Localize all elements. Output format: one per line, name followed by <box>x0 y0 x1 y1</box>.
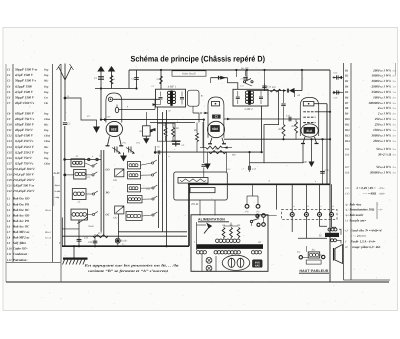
svg-text:·· ·· · 2×•×••·: ·· ·· · 2×•×••· <box>351 234 367 238</box>
svg-text:1000 ω 1 W½: 1000 ω 1 W½ <box>373 95 391 99</box>
resistor R11 <box>295 122 298 133</box>
svg-text:L5: L5 <box>6 220 11 223</box>
wire V2 plate right <box>224 118 300 120</box>
svg-text:Bob MF1 ac: Bob MF1 ac <box>12 230 30 234</box>
tube V3 legs <box>303 137 305 143</box>
svg-text:Chim: Chim <box>44 140 50 143</box>
svg-text:Chim: Chim <box>44 118 50 121</box>
switch contacts left bank <box>92 165 94 167</box>
svg-text:Sou ple ant •: Sou ple ant • <box>350 219 368 223</box>
jacks PU <box>245 204 249 208</box>
capacitor 2x <box>245 70 247 76</box>
band bus pair <box>100 150 102 232</box>
capacitor C30 on bus <box>94 238 96 246</box>
jack exc right <box>322 255 325 258</box>
svg-text:R11: R11 <box>345 124 350 127</box>
svg-text:LP: LP <box>344 246 348 249</box>
svg-text:HAUT·PARLEUR: HAUT·PARLEUR <box>299 269 328 273</box>
svg-text:c: c <box>243 167 244 170</box>
bold feed arrow <box>218 76 220 80</box>
svg-text:R13: R13 <box>345 134 350 137</box>
wire IF1 top feed <box>160 70 162 89</box>
svg-text:Blin d: Blin d <box>45 231 52 234</box>
svg-text:L7: L7 <box>6 231 11 234</box>
svg-text:R14: R14 <box>345 140 350 143</box>
wire IF2 top <box>235 70 237 77</box>
osc trimmer CA1 <box>115 169 124 177</box>
svg-text:L6: L6 <box>6 225 11 228</box>
svg-text:CF: CF <box>345 229 349 232</box>
svg-text:L1: L1 <box>75 155 79 158</box>
tube V3 envelope <box>300 97 318 136</box>
svg-text:4,5µµF 1500: 4,5µµF 1500 <box>14 84 32 88</box>
svg-text:Ajust: Ajust <box>54 184 60 187</box>
volets oscill label box <box>172 71 206 76</box>
mains arrow <box>206 223 212 229</box>
wire V3 screen <box>316 111 331 113</box>
svg-text:650µF 1500 V: 650µF 1500 V <box>15 111 35 115</box>
wire h 228.9 <box>62 228 79 230</box>
cathode network box <box>174 172 228 200</box>
svg-text:30000 ω 1 W½: 30000 ω 1 W½ <box>371 133 392 137</box>
svg-text:3 w: 3 w <box>393 113 397 116</box>
wire C26 branch <box>78 220 80 247</box>
left table column rule 1 <box>12 64 14 262</box>
svg-text:50µµF 1500 V·ss: 50µµF 1500 V·ss <box>15 68 38 72</box>
svg-text:45µµF 750 V·: 45µµF 750 V· <box>14 128 33 132</box>
svg-text:6L6: 6L6 <box>307 129 313 133</box>
secondary coil right <box>252 251 255 254</box>
svg-text:Mic: Mic <box>43 80 49 83</box>
node PU junction <box>63 174 66 177</box>
heavy bus horizontal right <box>189 183 330 185</box>
svg-text:Bob MF2 ac: Bob MF2 ac <box>12 236 30 240</box>
tube V2 base ellipse <box>207 121 224 137</box>
osc trimmer CA2 <box>115 206 124 214</box>
tube V1 type label <box>110 126 118 132</box>
svg-text:2×0,45µF 250 V: 2×0,45µF 250 V <box>12 189 35 193</box>
svg-text:CV1: CV1 <box>122 142 126 145</box>
svg-text:Aj2: Aj2 <box>344 209 349 212</box>
resistor R4 <box>164 128 167 137</box>
capacitor into box <box>202 164 207 166</box>
secondary coil middle <box>214 251 217 254</box>
svg-text:450µF 750 V·s: 450µF 750 V·s <box>14 117 35 121</box>
svg-text:4A5: 4A5 <box>255 265 260 268</box>
svg-text:Fusib·: Fusib· <box>120 240 128 243</box>
trimmer cap margin 1 <box>333 77 344 79</box>
svg-text:C15: C15 <box>7 151 12 154</box>
heater pin 3 <box>318 213 322 217</box>
svg-text:Bob Osc OC: Bob Osc OC <box>12 208 30 212</box>
svg-text:CAV: CAV <box>106 116 111 119</box>
osc coil row 2 <box>128 172 141 179</box>
tube V1 legs <box>108 136 110 145</box>
wire under V3 <box>264 144 303 163</box>
svg-text:R10: R10 <box>278 128 284 131</box>
svg-text:L8: L8 <box>6 237 11 240</box>
wires into box <box>203 120 205 163</box>
tube V2 legs <box>210 138 212 144</box>
jack exc left <box>299 256 302 259</box>
svg-text:2×0,4 µF 500 V: 2×0,4 µF 500 V <box>12 173 34 177</box>
svg-text:Bob Osc PO: Bob Osc PO <box>12 202 30 206</box>
right table column rule 2 <box>350 63 352 280</box>
svg-text:R12: R12 <box>271 86 277 89</box>
schematic top border <box>129 69 330 71</box>
svg-text:3 w: 3 w <box>393 124 397 127</box>
variable capacitor double arrow <box>283 89 287 92</box>
svg-text:L10: L10 <box>6 248 12 251</box>
junction dots misc <box>160 69 162 71</box>
tube V2 label box <box>211 125 220 131</box>
tube V2 middle element <box>212 115 220 119</box>
svg-text:· rouge· pilote 6,3·· 4Ω·: · rouge· pilote 6,3·· 4Ω· <box>351 245 381 249</box>
coupling capacitor C13 <box>288 117 290 122</box>
svg-text:30000 ω 1 W¼: 30000 ω 1 W¼ <box>371 79 392 83</box>
padder trimmer top 2 <box>126 148 134 153</box>
arrow left AVC <box>150 128 155 131</box>
svg-text:2 MF 2: 2 MF 2 <box>244 108 253 111</box>
transformer core bar <box>197 244 264 249</box>
svg-text:CV1: CV1 <box>345 187 349 190</box>
right table top tick <box>395 63 397 75</box>
wire osc h-line <box>155 151 261 153</box>
jack pair lower <box>262 214 266 218</box>
cathode resistor R7 <box>206 146 222 149</box>
wire border drop <box>128 70 130 89</box>
svg-text:variante “B” se ferment et “A”: variante “B” se ferment et “A” s’ouvrent <box>88 269 169 273</box>
earth hatched bar <box>63 258 88 260</box>
IF transformer MF1 box <box>156 89 186 107</box>
heater pin 2 <box>304 213 308 217</box>
svg-text:3 w: 3 w <box>393 102 397 105</box>
svg-text:1 w: 1 w <box>393 86 397 89</box>
svg-text:C20: C20 <box>7 179 12 182</box>
svg-text:En appuyant sur les poussoirs: En appuyant sur les poussoirs on lit… /l… <box>83 263 179 267</box>
IF transformer MF2 box <box>233 89 268 106</box>
svg-text:Mic: Mic <box>43 124 49 127</box>
resistor R12 <box>270 89 281 92</box>
svg-text:Chim: Chim <box>44 162 50 165</box>
wire step left chain <box>250 91 279 163</box>
resistor bar 1 <box>178 178 208 184</box>
svg-text:1000000 ω 1 W½: 1000000 ω 1 W½ <box>368 101 391 105</box>
svg-text:Pap: Pap <box>44 129 49 132</box>
osc wires to switches <box>141 163 152 165</box>
wires coils to switches <box>85 163 92 166</box>
svg-text:s·tûp: s·tûp <box>54 196 60 199</box>
IF2 capacitor left <box>236 96 240 98</box>
wire V1 left stem <box>100 89 102 120</box>
svg-text:Pap: Pap <box>44 69 49 72</box>
wires field coil <box>303 256 309 258</box>
mains terminals <box>256 214 259 217</box>
wire drop 4 <box>319 184 321 212</box>
svg-text:Potentiomètre 50Ω: Potentiomètre 50Ω <box>350 208 375 212</box>
svg-text:3 w: 3 w <box>393 75 397 78</box>
wire V2 grid dashes <box>200 112 208 114</box>
svg-text:2 ω 1 W½: 2 ω 1 W½ <box>377 112 392 116</box>
svg-text:R17: R17 <box>97 232 103 235</box>
wire PU to coils <box>65 174 74 176</box>
svg-text:Aj3: Aj3 <box>344 214 349 217</box>
svg-text:300000 ω 1 W½: 300000 ω 1 W½ <box>369 171 392 175</box>
svg-text:4 ω 1 W½: 4 ω 1 W½ <box>377 106 392 110</box>
antenna coil L1 box <box>71 159 85 167</box>
resistor R5 <box>172 128 175 137</box>
svg-text:0,45µF 500 V·ss: 0,45µF 500 V·ss <box>13 184 35 188</box>
svg-text:Bob Acc PO: Bob Acc PO <box>12 219 30 223</box>
svg-text:Chim: Chim <box>44 135 50 138</box>
svg-text:0,2µF 750 V·: 0,2µF 750 V· <box>15 156 32 160</box>
svg-text:3 w: 3 w <box>393 148 397 151</box>
svg-text:C11: C11 <box>240 85 244 88</box>
schematic right border <box>329 70 331 282</box>
ground arrow input <box>93 127 100 134</box>
svg-text:C17: C17 <box>7 162 12 165</box>
svg-text:3 w: 3 w <box>393 118 397 121</box>
svg-text:3 w: 3 w <box>393 69 397 72</box>
svg-text:50 ω 4 W½: 50 ω 4 W½ <box>376 165 391 169</box>
resistor R17 h <box>93 235 108 238</box>
svg-text:R18: R18 <box>344 172 350 175</box>
wire transformer right <box>339 229 341 235</box>
svg-text:1500 ω 1 W½: 1500 ω 1 W½ <box>373 128 391 132</box>
svg-text:C11: C11 <box>7 129 12 132</box>
frame bottom border <box>6 281 389 283</box>
svg-text:4,5µF 1500 V: 4,5µF 1500 V <box>14 73 34 77</box>
svg-text:3 w: 3 w <box>393 166 397 169</box>
svg-text:Volets Oscill·: Volets Oscill· <box>182 73 197 76</box>
dashed lamp box <box>282 210 338 220</box>
wire box right <box>226 152 228 172</box>
svg-text:0,2µF 250 V·s: 0,2µF 250 V·s <box>15 139 34 143</box>
osc coil row 5 <box>126 212 142 221</box>
node osc feed <box>154 151 157 154</box>
svg-text:2×0,45µF 500 V·: 2×0,45µF 500 V· <box>12 167 35 171</box>
capacitor cross to ground <box>172 140 181 142</box>
capacitor C4 <box>136 70 138 89</box>
svg-text:R16: R16 <box>344 154 350 157</box>
svg-text:C22: C22 <box>7 190 12 193</box>
resistor R3 box <box>143 126 151 136</box>
osc coil row 3 <box>128 185 141 192</box>
wire top h-line <box>95 88 137 90</box>
svg-text:1 w: 1 w <box>393 129 397 132</box>
earth connection <box>73 246 75 257</box>
svg-text:1 w: 1 w <box>393 91 397 94</box>
paper speckle noise <box>254 36 257 39</box>
left table bottom border <box>6 262 61 264</box>
svg-text:30×2 ½ Ω: 30×2 ½ Ω <box>377 153 392 157</box>
svg-text:2×: 2× <box>241 78 244 81</box>
svg-text:L9: L9 <box>6 242 11 245</box>
svg-text:R17: R17 <box>344 166 350 169</box>
svg-text:CV2: CV2 <box>345 193 350 196</box>
svg-text:L2: L2 <box>6 203 11 206</box>
wire step to IF2 <box>228 78 238 90</box>
IF1 capacitor right <box>180 96 184 98</box>
svg-text:6E8: 6E8 <box>111 127 117 131</box>
antenna coil L3 box <box>72 189 86 200</box>
svg-text:C14: C14 <box>7 146 12 149</box>
svg-text:Bob •écu: Bob •écu <box>349 202 362 206</box>
svg-text:C16: C16 <box>7 157 12 160</box>
rectifier tube <box>222 255 250 270</box>
wire antenna down <box>64 98 66 121</box>
antenna <box>64 80 66 98</box>
svg-text:Schéma de principe (Châssis re: Schéma de principe (Châssis repéré D) <box>131 54 266 63</box>
tube V3 base ellipse <box>301 124 318 137</box>
IF2 coils <box>245 91 248 94</box>
wire top right h <box>247 90 283 92</box>
svg-text:Fusib· 1,5 A · 6×4•·: Fusib· 1,5 A · 6×4•· <box>351 240 376 244</box>
svg-text:C10: C10 <box>7 124 12 127</box>
svg-text:· 474••: · 474•• <box>378 187 385 190</box>
svg-text:3 w: 3 w <box>393 96 397 99</box>
wire left coil down <box>61 217 63 246</box>
svg-text:L12: L12 <box>6 259 12 262</box>
svg-text:écr an: écr an <box>45 237 52 240</box>
svg-text:Pap: Pap <box>44 151 49 154</box>
svg-text:6D6: 6D6 <box>212 127 218 131</box>
antenna coil L2 box <box>74 169 86 179</box>
svg-text:Mic: Mic <box>43 146 49 149</box>
svg-text:Re: Re <box>200 95 203 98</box>
tube V3 top box <box>303 102 314 106</box>
ground arrow R3 <box>143 138 149 144</box>
svg-text:2×0,45µF 250 V: 2×0,45µF 250 V <box>12 178 35 182</box>
padder trimmer top 1 <box>112 148 120 153</box>
svg-text:Padd: Padd <box>88 225 95 228</box>
supply arrow 2 <box>108 66 116 72</box>
trimmer cap margin 2 <box>333 92 344 94</box>
resistor bar 2 <box>190 188 215 193</box>
svg-text:S1: S1 <box>157 78 159 81</box>
svg-text:Bob Osc GO: Bob Osc GO <box>12 197 30 201</box>
rejector box <box>188 90 200 106</box>
svg-text:Self ·filtre: Self ·filtre <box>13 241 27 245</box>
svg-text:Condensat ·: Condensat · <box>13 252 29 256</box>
svg-text:50µµF 1500 V·s: 50µµF 1500 V·s <box>15 79 37 83</box>
capacitor C17 <box>249 152 251 172</box>
IF1 capacitor left <box>159 96 163 98</box>
svg-text:Pap: Pap <box>44 112 49 115</box>
svg-text:Exc: Exc <box>296 251 300 254</box>
osc coil row 4 <box>128 196 143 203</box>
svg-text:L11: L11 <box>6 253 12 256</box>
svg-text:L3: L3 <box>6 209 11 212</box>
field coil former <box>306 260 321 264</box>
heater wires below <box>291 217 293 233</box>
tube V2 top cap box <box>212 102 220 106</box>
output transformer secondary <box>331 239 334 242</box>
svg-text:3 w: 3 w <box>393 154 397 157</box>
padder trimmer L4 <box>77 218 87 224</box>
wire to V3 region <box>295 90 303 92</box>
svg-text:250 ω 1 W½: 250 ω 1 W½ <box>374 123 392 127</box>
pilot lamp 1 <box>206 257 212 263</box>
wire V2 bottom to bus <box>224 138 330 140</box>
capacitor C3 on arrow 1 <box>98 76 104 78</box>
tube V1 envelope <box>106 93 122 123</box>
speaker <box>335 245 343 264</box>
HP arrow down <box>309 162 315 168</box>
alim internal wires <box>196 222 198 250</box>
6V8 label box <box>253 260 263 267</box>
node masse <box>116 239 119 242</box>
svg-text:HP: HP <box>303 161 308 164</box>
osc right verticals <box>158 155 160 228</box>
svg-text:·· ·· ·• 49Ω: ·· ·· ·• 49Ω <box>363 192 377 196</box>
svg-text:2500 ω 1 W½: 2500 ω 1 W½ <box>372 139 391 143</box>
capacitor C26 <box>77 238 82 240</box>
svg-text:Altern: Altern <box>44 209 52 212</box>
svg-text:3 w: 3 w <box>393 80 397 83</box>
heater pin 4 <box>330 213 334 217</box>
capacitor C18 right <box>322 139 324 184</box>
svg-text:Pap: Pap <box>44 85 49 88</box>
IF2 capacitor right <box>259 96 263 98</box>
svg-text:T·: T· <box>59 242 62 245</box>
wire V1 plate to IF1 <box>113 98 160 100</box>
tube V1 top cap <box>108 97 112 101</box>
svg-text:• 4••·: • 4••· <box>378 209 383 212</box>
wire to input ground <box>65 98 97 127</box>
primary coil row <box>216 239 220 243</box>
left table col3 brace <box>53 176 55 206</box>
output transformer primary coil <box>328 228 331 231</box>
osc coil row 1 <box>128 162 141 169</box>
svg-text:PU: PU <box>255 211 260 214</box>
wire drop 5 <box>331 184 333 212</box>
svg-text:0,5µF·1500 V: 0,5µF·1500 V <box>15 134 34 138</box>
field coil exc <box>308 252 320 258</box>
ground arrow mid <box>204 164 211 170</box>
svg-text:à vide: à vide <box>55 190 61 193</box>
wire drop 3 <box>305 184 307 212</box>
svg-text:10000 ω 1 W½: 10000 ω 1 W½ <box>372 74 392 78</box>
left table column rule 2 <box>52 64 54 262</box>
svg-text:2000 ω 1 W½: 2000 ω 1 W½ <box>372 68 391 72</box>
wire IF2 right down <box>261 106 263 152</box>
svg-text:4•5 Ω·: 4•5 Ω· <box>191 202 199 206</box>
pilot lamp 2 <box>206 265 212 271</box>
node antenna junction <box>64 97 67 100</box>
svg-text:CA1: CA1 <box>113 179 117 182</box>
svg-text:Pap: Pap <box>44 91 49 94</box>
svg-text:0,5µF 750 V·s: 0,5µF 750 V·s <box>15 161 34 165</box>
resistor R8 on line <box>209 151 226 154</box>
primary tap resistors <box>222 228 225 238</box>
capacitor C1 <box>63 122 67 124</box>
alimentation box <box>191 215 268 271</box>
svg-text:ALIMENTATION: ALIMENTATION <box>198 218 225 222</box>
svg-text:A·: A· <box>66 95 70 98</box>
secondary coil left <box>197 251 200 254</box>
svg-text:2 × 0,49 • 49 ···: 2 × 0,49 • 49 ··· <box>355 186 376 190</box>
svg-text:Bob Acc GO: Bob Acc GO <box>12 213 30 217</box>
svg-text:L4: L4 <box>6 214 11 217</box>
tube V3 grid dashes <box>303 111 315 113</box>
wire V1 screen <box>119 109 155 111</box>
svg-text:C12: C12 <box>7 135 12 138</box>
switch int HP <box>243 81 245 83</box>
ground arrow padder <box>120 156 127 162</box>
svg-text:C18: C18 <box>7 168 12 171</box>
output transformer core <box>325 233 339 237</box>
